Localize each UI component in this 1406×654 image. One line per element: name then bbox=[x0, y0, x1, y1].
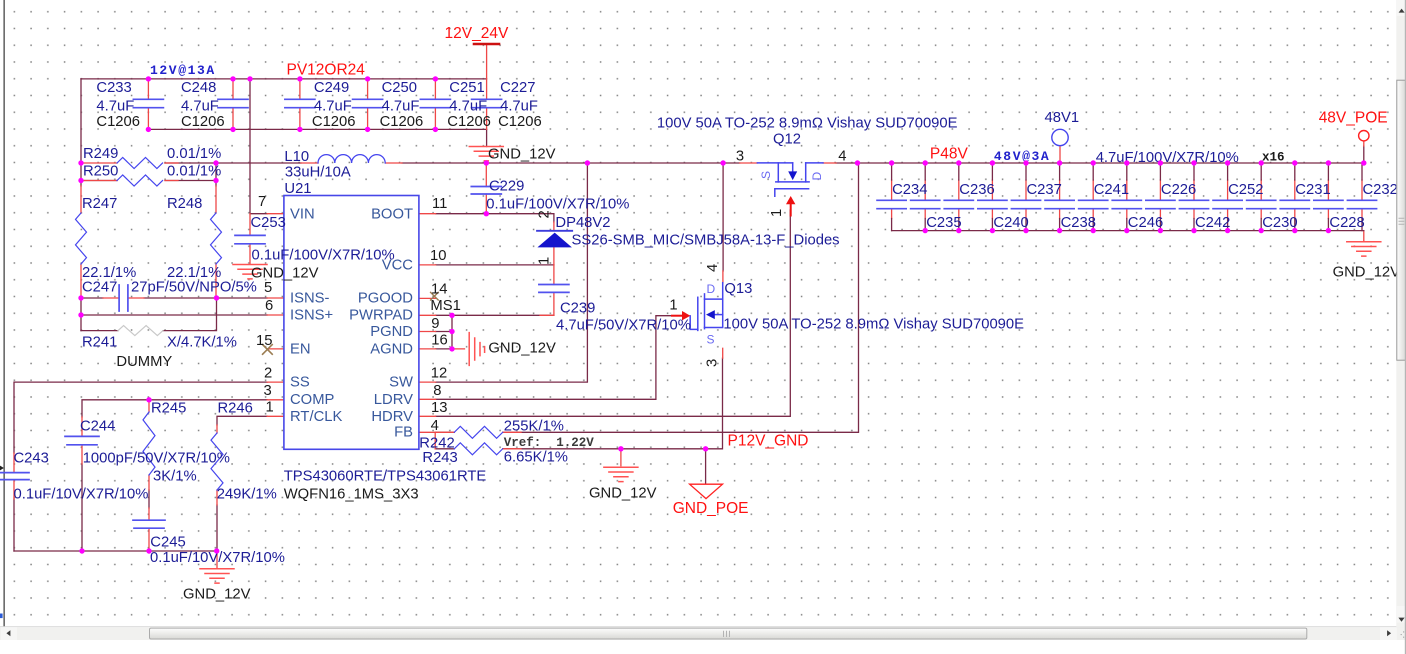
svg-text:C233: C233 bbox=[96, 80, 131, 96]
svg-text:C1206: C1206 bbox=[498, 114, 542, 130]
pin 9 stub bbox=[419, 314, 436, 316]
svg-text:C251: C251 bbox=[449, 80, 484, 96]
U21 pin names bbox=[290, 207, 413, 441]
svg-text:100V 50A TO-252 8.9mΩ Vishay S: 100V 50A TO-252 8.9mΩ Vishay SUD70090E bbox=[723, 317, 1024, 333]
wire R249 right lead bbox=[165, 162, 190, 164]
svg-text:C248: C248 bbox=[181, 80, 216, 96]
resistor R243 leads bbox=[435, 432, 521, 449]
splitter arrow left bbox=[0, 466, 4, 471]
svg-text:BOOT: BOOT bbox=[371, 207, 413, 223]
capacitor C249 stubs bbox=[299, 79, 301, 129]
capacitor C243 stubs bbox=[13, 453, 15, 499]
wire AGND bbox=[436, 348, 452, 350]
svg-text:6.65K/1%: 6.65K/1% bbox=[504, 450, 568, 466]
pin 7 stub bbox=[267, 213, 284, 215]
capacitor C247 stubs bbox=[103, 297, 144, 299]
capacitor C245 stubs bbox=[148, 508, 150, 551]
svg-text:X/4.7K/1%: X/4.7K/1% bbox=[167, 335, 237, 351]
svg-text:GND_12V: GND_12V bbox=[589, 486, 657, 502]
ground GND_POE triangle bbox=[690, 484, 723, 498]
capacitor C229 stubs bbox=[485, 163, 487, 214]
transistor Q12 source lead stub bbox=[740, 162, 758, 164]
svg-text:C246: C246 bbox=[1128, 215, 1163, 231]
svg-text:14: 14 bbox=[431, 282, 447, 298]
svg-text:4.7uF: 4.7uF bbox=[500, 99, 538, 115]
wire 48V_POE riser bbox=[1363, 146, 1365, 163]
svg-text:0.1uF/100V/X7R/10%: 0.1uF/100V/X7R/10% bbox=[486, 197, 629, 213]
svg-text:12V_24V: 12V_24V bbox=[445, 25, 509, 42]
svg-text:4.7uF/50V/X7R/10%: 4.7uF/50V/X7R/10% bbox=[556, 318, 691, 334]
svg-text:D: D bbox=[707, 282, 716, 296]
wire RT/CLK net bbox=[217, 416, 267, 425]
svg-text:Q12: Q12 bbox=[773, 132, 801, 148]
capacitor C229 plates bbox=[471, 187, 501, 195]
transistor Q13 source stub bbox=[722, 348, 724, 358]
svg-text:C235: C235 bbox=[926, 215, 961, 231]
inductor L10 coil bbox=[318, 155, 385, 163]
capacitor C227 stubs and 12V_24V stub bbox=[486, 45, 488, 129]
diode DP48V2 bbox=[537, 231, 572, 248]
capacitor C244 plates bbox=[65, 436, 99, 444]
svg-text:1: 1 bbox=[769, 209, 785, 217]
capacitor C239 plates bbox=[539, 285, 569, 293]
wire pin stub R248 top bbox=[215, 186, 217, 213]
resistor R242 zigzag bbox=[454, 426, 502, 438]
transistor Q12 drain lead stub bbox=[823, 162, 836, 164]
scrollbar corner bbox=[1396, 627, 1406, 640]
wire y163 Q12 drain to bank bbox=[836, 162, 1364, 164]
capacitor C239 stubs bbox=[540, 265, 554, 315]
svg-text:R243: R243 bbox=[422, 450, 457, 466]
wire C244 bottom bbox=[81, 464, 83, 551]
wire VCC to diode anode bbox=[436, 264, 554, 266]
svg-text:9: 9 bbox=[431, 316, 439, 332]
capacitor C233 stubs bbox=[147, 79, 149, 129]
svg-text:C1206: C1206 bbox=[380, 114, 424, 130]
vertical scrollbar track bbox=[1396, 0, 1406, 627]
pin 1 stub bbox=[267, 415, 284, 417]
capacitor C248 stubs bbox=[232, 79, 234, 129]
svg-text:100V 50A TO-252 8.9mΩ Vishay S: 100V 50A TO-252 8.9mΩ Vishay SUD70090E bbox=[657, 116, 958, 132]
capacitor C244 stubs bbox=[81, 417, 83, 464]
transistor Q12 bbox=[757, 163, 823, 196]
svg-text:1000pF/50V/X7R/10%: 1000pF/50V/X7R/10% bbox=[83, 451, 230, 467]
pin 16 stub bbox=[419, 331, 436, 333]
svg-text:10: 10 bbox=[430, 248, 446, 264]
svg-text:255K/1%: 255K/1% bbox=[504, 419, 564, 435]
svg-text:R250: R250 bbox=[83, 164, 118, 180]
capacitor C249 plates bbox=[285, 99, 315, 107]
power port 48V_POE circle bbox=[1359, 131, 1369, 141]
wire right vertical x216 upper bbox=[215, 163, 217, 186]
pin 11 stub bbox=[419, 213, 436, 215]
capacitor C247 plates bbox=[119, 285, 128, 311]
svg-text:MS1: MS1 bbox=[430, 298, 460, 314]
svg-text:4.7uF: 4.7uF bbox=[96, 99, 134, 115]
capacitor bank plates bbox=[876, 200, 1377, 208]
capacitor C251 stubs bbox=[434, 79, 436, 129]
wire pin stub R248 bottom bbox=[215, 264, 217, 298]
svg-text:C238: C238 bbox=[1061, 215, 1096, 231]
resistor R241 zigzag (DNP gray) bbox=[118, 326, 163, 336]
horizontal scrollbar left button bbox=[1, 627, 17, 640]
svg-text:15: 15 bbox=[256, 333, 272, 349]
svg-text:1: 1 bbox=[537, 257, 553, 265]
resistor R249 zigzag bbox=[117, 158, 163, 169]
wire x250 VIN riser bbox=[250, 79, 267, 214]
svg-text:5: 5 bbox=[264, 280, 272, 296]
ground GND_12V at x217 bbox=[200, 569, 234, 583]
ground GND_12V above y163 junction bbox=[469, 147, 503, 161]
svg-text:C250: C250 bbox=[382, 80, 417, 96]
pin 5 stub bbox=[267, 297, 284, 299]
wire pin stub R249 right bbox=[165, 162, 178, 164]
resistor R243 zigzag bbox=[454, 443, 502, 455]
svg-text:L10: L10 bbox=[284, 149, 309, 165]
pin 4 stub bbox=[419, 431, 436, 433]
svg-text:16: 16 bbox=[431, 333, 447, 349]
svg-text:0.01/1%: 0.01/1% bbox=[167, 164, 221, 180]
resistor R246 stubs bbox=[216, 425, 218, 505]
svg-text:3: 3 bbox=[705, 359, 721, 367]
svg-text:12: 12 bbox=[431, 366, 447, 382]
svg-text:D: D bbox=[810, 172, 824, 181]
vertical scrollbar thumb bbox=[1397, 80, 1406, 360]
svg-text:SS: SS bbox=[290, 375, 310, 391]
svg-text:GND_12V: GND_12V bbox=[1333, 265, 1401, 281]
wire FB net bbox=[436, 163, 859, 432]
svg-text:C243: C243 bbox=[14, 451, 49, 467]
svg-text:R248: R248 bbox=[167, 196, 202, 212]
no-connect X on pin 14 bbox=[431, 292, 439, 300]
pin 2 stub bbox=[267, 381, 284, 383]
svg-text:C1206: C1206 bbox=[181, 114, 225, 130]
wire riser below C227 to GND bbox=[486, 129, 488, 146]
pin 10 stub bbox=[419, 264, 436, 266]
wire GND rail top-left block bbox=[148, 128, 486, 130]
transistor Q13 bbox=[690, 283, 723, 331]
horizontal scrollbar track bbox=[0, 627, 1396, 640]
capacitor C233 plates bbox=[133, 99, 163, 107]
svg-text:C1206: C1206 bbox=[96, 114, 140, 130]
svg-text:2: 2 bbox=[264, 366, 272, 382]
svg-text:GND_12V: GND_12V bbox=[488, 341, 556, 357]
svg-text:WQFN16_1MS_3X3: WQFN16_1MS_3X3 bbox=[284, 487, 419, 503]
window right border bbox=[1405, 0, 1406, 654]
transistor Q12 gate arrow bbox=[786, 196, 795, 216]
svg-text:DUMMY: DUMMY bbox=[116, 354, 172, 370]
svg-text:4.7uF: 4.7uF bbox=[181, 99, 219, 115]
svg-text:SS26-SMB_MIC/SMBJ58A-13-F_Diod: SS26-SMB_MIC/SMBJ58A-13-F_Diodes bbox=[572, 233, 840, 249]
svg-text:2: 2 bbox=[537, 210, 553, 218]
wire pin stub R247 bottom bbox=[80, 264, 82, 298]
svg-text:3: 3 bbox=[736, 149, 744, 165]
svg-text:TPS43060RTE/TPS43061RTE: TPS43060RTE/TPS43061RTE bbox=[284, 469, 487, 485]
svg-text:COMP: COMP bbox=[290, 392, 335, 408]
horizontal scrollbar thumb bbox=[150, 628, 1307, 639]
svg-text:S: S bbox=[707, 333, 715, 347]
vertical scrollbar up button bbox=[1396, 0, 1406, 16]
wire R245 mid bbox=[148, 490, 150, 508]
window left border bbox=[3, 0, 5, 627]
svg-text:C241: C241 bbox=[1094, 182, 1129, 198]
wire bottom rail y551 bbox=[14, 550, 217, 552]
capacitor bank column wires bbox=[892, 163, 1364, 231]
svg-text:GND_12V: GND_12V bbox=[251, 266, 319, 282]
svg-text:LDRV: LDRV bbox=[374, 392, 413, 408]
wire R241 left bbox=[81, 330, 118, 332]
inductor L10 leads bbox=[301, 162, 402, 164]
no-connect X on EN pin bbox=[263, 345, 273, 355]
svg-text:Q13: Q13 bbox=[724, 281, 752, 297]
48V1 stub bbox=[1059, 146, 1061, 163]
wire pin stub R250 bbox=[81, 180, 178, 182]
pin 13 stub bbox=[419, 415, 436, 417]
ground GND_12V right of AGND bbox=[469, 333, 484, 366]
svg-text:FB: FB bbox=[394, 425, 413, 441]
svg-text:PGOOD: PGOOD bbox=[358, 291, 413, 307]
svg-text:C1206: C1206 bbox=[447, 114, 491, 130]
svg-text:PV12OR24: PV12OR24 bbox=[287, 62, 366, 79]
wire GND_POE stub bbox=[705, 449, 707, 484]
svg-text:1: 1 bbox=[669, 298, 677, 314]
svg-text:P12V_GND: P12V_GND bbox=[728, 433, 809, 450]
svg-text:HDRV: HDRV bbox=[371, 409, 413, 425]
svg-text:4.7uF/100V/X7R/10%: 4.7uF/100V/X7R/10% bbox=[1096, 150, 1239, 166]
wire BOOT net bbox=[436, 214, 554, 222]
svg-text:4: 4 bbox=[705, 264, 721, 272]
capacitor C245 plates bbox=[133, 520, 165, 528]
wire C243 bottom to rail bbox=[13, 499, 15, 551]
pin 14 stub bbox=[419, 297, 436, 299]
wire PGND pin16 bbox=[436, 331, 452, 333]
horizontal scrollbar right button bbox=[1380, 627, 1396, 640]
svg-text:RT/CLK: RT/CLK bbox=[290, 409, 342, 425]
svg-text:C234: C234 bbox=[892, 182, 927, 198]
svg-text:R246: R246 bbox=[218, 401, 253, 417]
wire HDRV net to Q12 gate bbox=[436, 210, 791, 416]
svg-text:PWRPAD: PWRPAD bbox=[349, 308, 413, 324]
svg-text:C236: C236 bbox=[959, 182, 994, 198]
wire SW net bbox=[436, 163, 588, 382]
capacitor C243 plates bbox=[0, 473, 29, 480]
svg-text:12V@13A: 12V@13A bbox=[150, 63, 216, 78]
svg-text:11: 11 bbox=[432, 196, 447, 212]
capacitor C250 stubs bbox=[367, 79, 369, 129]
svg-text:C252: C252 bbox=[1228, 182, 1263, 198]
wire LDRV net to Q13 gate bbox=[436, 316, 672, 400]
pin 15 stub bbox=[267, 348, 284, 350]
resistor R242 leads bbox=[436, 431, 521, 433]
capacitor C248 plates bbox=[218, 99, 248, 107]
resistor R246 zigzag bbox=[211, 433, 223, 490]
svg-text:33uH/10A: 33uH/10A bbox=[285, 165, 351, 181]
diode DP48V2 pins bbox=[553, 222, 555, 265]
power symbol 12V_24V bar bbox=[474, 43, 499, 46]
wire ISNS+ net bbox=[81, 314, 267, 316]
svg-text:6: 6 bbox=[265, 298, 273, 314]
svg-text:C228: C228 bbox=[1329, 215, 1364, 231]
svg-text:x16: x16 bbox=[1262, 151, 1285, 165]
svg-text:3K/1%: 3K/1% bbox=[153, 469, 197, 485]
svg-text:C249: C249 bbox=[314, 80, 349, 96]
svg-text:C227: C227 bbox=[500, 80, 535, 96]
svg-text:3: 3 bbox=[264, 383, 272, 399]
GND stub at x620.9 bbox=[620, 449, 622, 466]
svg-text:Vref: 1.22V: Vref: 1.22V bbox=[504, 436, 595, 450]
ground GND_12V below C253 bbox=[233, 265, 267, 279]
svg-text:DP48V2: DP48V2 bbox=[555, 215, 610, 231]
op-amp U21 body (IC TPS43060RTE) bbox=[284, 196, 419, 450]
capacitor C227 plates bbox=[472, 99, 502, 107]
svg-text:8: 8 bbox=[433, 383, 441, 399]
capacitor C253 plates bbox=[235, 235, 265, 243]
svg-text:C226: C226 bbox=[1161, 182, 1196, 198]
wire R246 bottom bbox=[216, 505, 218, 551]
svg-text:0.01/1%: 0.01/1% bbox=[167, 146, 221, 162]
U21 pin numbers bbox=[256, 194, 448, 434]
resistor R245 zigzag bbox=[143, 412, 155, 475]
svg-text:GND_12V: GND_12V bbox=[488, 147, 556, 163]
transistor Q13 drain stub bbox=[722, 271, 724, 283]
resistor R247 zigzag bbox=[76, 213, 87, 264]
svg-text:C232: C232 bbox=[1363, 182, 1398, 198]
svg-text:4.7uF: 4.7uF bbox=[382, 99, 420, 115]
svg-text:0.1uF/10V/X7R/10%: 0.1uF/10V/X7R/10% bbox=[14, 487, 149, 503]
wire PWRPAD to C239 bbox=[436, 314, 554, 316]
wire 12V rail top-left bbox=[81, 78, 487, 80]
svg-text:C247: C247 bbox=[82, 280, 117, 296]
wire pin stub R247 top bbox=[80, 186, 82, 213]
svg-text:GND_POE: GND_POE bbox=[673, 500, 749, 517]
wire left vertical x81 lower bbox=[80, 298, 82, 331]
svg-text:R245: R245 bbox=[151, 401, 186, 417]
svg-text:C242: C242 bbox=[1195, 215, 1230, 231]
wire COMP net bbox=[82, 400, 267, 417]
svg-text:C245: C245 bbox=[150, 535, 185, 551]
svg-text:1: 1 bbox=[266, 400, 274, 416]
svg-text:PGND: PGND bbox=[370, 324, 413, 340]
svg-text:C1206: C1206 bbox=[312, 114, 356, 130]
wire pins 9-16-AGND vertical bbox=[451, 315, 453, 349]
svg-text:EN: EN bbox=[290, 342, 311, 358]
svg-text:249K/1%: 249K/1% bbox=[217, 487, 277, 503]
svg-text:R249: R249 bbox=[83, 146, 118, 162]
pin 8 stub bbox=[419, 398, 436, 400]
svg-text:C240: C240 bbox=[993, 215, 1028, 231]
svg-text:C253: C253 bbox=[251, 215, 286, 231]
canvas bottom border bbox=[0, 626, 1406, 627]
svg-text:AGND: AGND bbox=[370, 342, 413, 358]
svg-text:7: 7 bbox=[258, 194, 266, 210]
resistor R250 zigzag bbox=[117, 175, 163, 186]
power port 48V1 circle bbox=[1052, 129, 1068, 145]
wire R243 to P12V_GND bbox=[435, 358, 722, 449]
svg-text:48V1: 48V1 bbox=[1045, 110, 1080, 126]
svg-text:48V@3A: 48V@3A bbox=[994, 149, 1050, 164]
svg-text:0.1uF/100V/X7R/10%: 0.1uF/100V/X7R/10% bbox=[252, 248, 395, 264]
capacitor bank pin stubs C234-C232 bbox=[892, 180, 1362, 219]
svg-text:R241: R241 bbox=[82, 335, 117, 351]
svg-text:4.7uF: 4.7uF bbox=[314, 99, 352, 115]
GND stub bank right bbox=[1363, 231, 1365, 242]
wire ISNS- net bbox=[81, 297, 267, 299]
capacitor C250 plates bbox=[353, 99, 383, 107]
svg-text:VIN: VIN bbox=[290, 207, 315, 223]
resistor R248 zigzag bbox=[211, 213, 222, 264]
svg-text:SW: SW bbox=[389, 375, 413, 391]
wire pin stub R249 left bbox=[81, 162, 117, 164]
svg-text:48V_POE: 48V_POE bbox=[1319, 110, 1388, 127]
svg-text:VCC: VCC bbox=[382, 258, 414, 274]
svg-text:4.7uF: 4.7uF bbox=[449, 99, 487, 115]
svg-text:R247: R247 bbox=[82, 196, 117, 212]
pin AGND stub bbox=[419, 348, 465, 350]
svg-text:ISNS+: ISNS+ bbox=[290, 308, 333, 324]
wire main y163 from R249 to L10 bbox=[190, 162, 301, 164]
svg-text:U21: U21 bbox=[284, 181, 311, 197]
wire R241 right bbox=[163, 298, 217, 331]
svg-text:C237: C237 bbox=[1027, 182, 1062, 198]
wire bank bottom rail bbox=[892, 230, 1364, 232]
left edge blue sliver bbox=[0, 614, 3, 619]
wire y163 L10 to GND junction bbox=[402, 162, 740, 164]
pin 3 stub bbox=[267, 399, 284, 401]
svg-text:C244: C244 bbox=[80, 419, 115, 435]
svg-text:ISNS-: ISNS- bbox=[290, 291, 330, 307]
svg-text:P48V: P48V bbox=[930, 146, 969, 163]
transistor Q13 gate arrow bbox=[672, 311, 690, 320]
svg-text:13: 13 bbox=[431, 400, 447, 416]
svg-text:27pF/50V/NPO/5%: 27pF/50V/NPO/5% bbox=[131, 280, 257, 296]
svg-text:C239: C239 bbox=[560, 301, 595, 317]
wire SS net to C243 bbox=[14, 382, 267, 453]
wire Q13 drain riser bbox=[722, 163, 724, 271]
ground GND_12V at x620.9 bbox=[604, 467, 638, 481]
svg-text:C231: C231 bbox=[1295, 182, 1330, 198]
svg-text:C229: C229 bbox=[489, 179, 524, 195]
48V_POE stub bbox=[1363, 141, 1365, 146]
wire R250 leads bbox=[81, 180, 216, 182]
svg-text:4: 4 bbox=[838, 149, 846, 165]
svg-text:GND_12V: GND_12V bbox=[183, 587, 251, 603]
wire left vertical x81 bbox=[80, 79, 82, 186]
vertical scrollbar down button bbox=[1396, 606, 1406, 623]
ground GND_12V bank right bbox=[1347, 242, 1381, 256]
GND stub at x217 bbox=[216, 551, 218, 568]
svg-text:4: 4 bbox=[431, 418, 439, 434]
pin 12 stub bbox=[419, 381, 436, 383]
svg-text:S: S bbox=[759, 171, 773, 179]
pin 6 stub bbox=[267, 314, 284, 316]
capacitor C253 stubs bbox=[249, 214, 251, 264]
capacitor C251 plates bbox=[420, 99, 450, 107]
svg-text:C230: C230 bbox=[1262, 215, 1297, 231]
resistor R245 stubs bbox=[148, 400, 150, 490]
